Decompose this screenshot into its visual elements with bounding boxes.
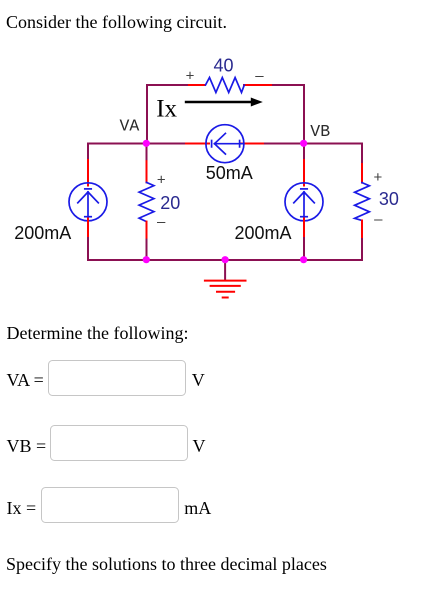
resistor R1 40-ohm zigzag — [206, 78, 245, 93]
row Ix — [7, 499, 37, 517]
svg-text:40: 40 — [213, 56, 233, 76]
resistor R2 lead bottom (red) — [146, 222, 148, 240]
row VB — [7, 437, 47, 455]
resistor R1 lead left (red) — [189, 84, 205, 86]
right outer wire purple bottom — [361, 239, 363, 260]
right inner branch purple bottom — [303, 238, 305, 260]
input VB — [50, 425, 188, 461]
footer text — [6, 555, 327, 573]
svg-text:+: + — [186, 68, 195, 85]
wire top-left purple segment — [147, 85, 189, 143]
current source I2 arrow (points up) — [87, 192, 89, 219]
svg-text:50mA: 50mA — [206, 163, 253, 183]
middle wire purple left — [88, 143, 186, 145]
svg-text:200mA: 200mA — [235, 223, 292, 243]
row VA — [7, 371, 44, 389]
ground bar 1 — [205, 280, 246, 282]
node bottom-center dot — [222, 256, 229, 263]
current source I1 50mA circle — [206, 125, 244, 163]
svg-text:–: – — [374, 211, 383, 228]
circuit schematic — [0, 0, 422, 320]
bottom wire — [88, 259, 362, 261]
svg-text:–: – — [157, 214, 166, 231]
resistor R2 20-ohm zigzag — [139, 182, 154, 221]
current source I3 arrow (points up) — [303, 192, 305, 219]
svg-text:30: 30 — [379, 189, 399, 209]
resistor R3 30-ohm zigzag — [355, 183, 370, 221]
current source I1 arrow (points left) — [215, 143, 243, 145]
middle wire purple right — [263, 143, 362, 145]
ground stub — [224, 260, 226, 280]
Ix current arrow — [185, 101, 254, 103]
current source I3 lead bottom (red) — [303, 219, 305, 239]
ground bar 2 — [211, 285, 240, 287]
current source I3 200mA circle — [285, 183, 323, 221]
current source I3 lead top (red) — [303, 160, 305, 186]
resistor R2 branch purple bottom — [146, 240, 148, 260]
svg-text:20: 20 — [160, 193, 180, 213]
title text — [6, 13, 227, 31]
current source I1 lead left (red) — [186, 143, 209, 145]
svg-text:–: – — [255, 68, 264, 85]
svg-text:+: + — [157, 172, 166, 189]
current source I2 lead top (red) — [87, 160, 89, 186]
resistor R1 lead right (red) — [244, 84, 271, 86]
resistor R3 lead top (red) — [361, 164, 363, 183]
current source I1 lead right (red) — [241, 143, 264, 145]
prompt text — [7, 324, 189, 342]
ground bar 3 — [217, 291, 234, 293]
svg-text:+: + — [374, 169, 383, 186]
wire top-right purple segment — [271, 85, 304, 143]
svg-text:VB: VB — [310, 122, 330, 141]
svg-text:VA: VA — [120, 117, 140, 136]
ground bar 4 — [223, 297, 228, 299]
right outer wire purple top — [361, 144, 363, 165]
resistor R2 branch purple top — [146, 144, 148, 162]
current source I2 lead bottom (red) — [87, 219, 89, 239]
left outer wire purple top — [87, 144, 89, 161]
node bottom-left dot — [143, 256, 150, 263]
svg-text:Ix: Ix — [156, 96, 177, 123]
node bottom-right dot — [300, 256, 307, 263]
input Ix — [41, 487, 179, 523]
node VA dot — [143, 140, 150, 147]
resistor R2 lead top (red) — [146, 161, 148, 182]
resistor R3 lead bottom (red) — [361, 221, 363, 240]
input VA — [48, 360, 186, 396]
svg-text:200mA: 200mA — [14, 223, 71, 243]
current source I2 200mA circle — [69, 183, 107, 221]
right inner branch purple top — [303, 144, 305, 161]
left outer wire purple bottom — [87, 238, 89, 260]
node VB dot — [300, 140, 307, 147]
